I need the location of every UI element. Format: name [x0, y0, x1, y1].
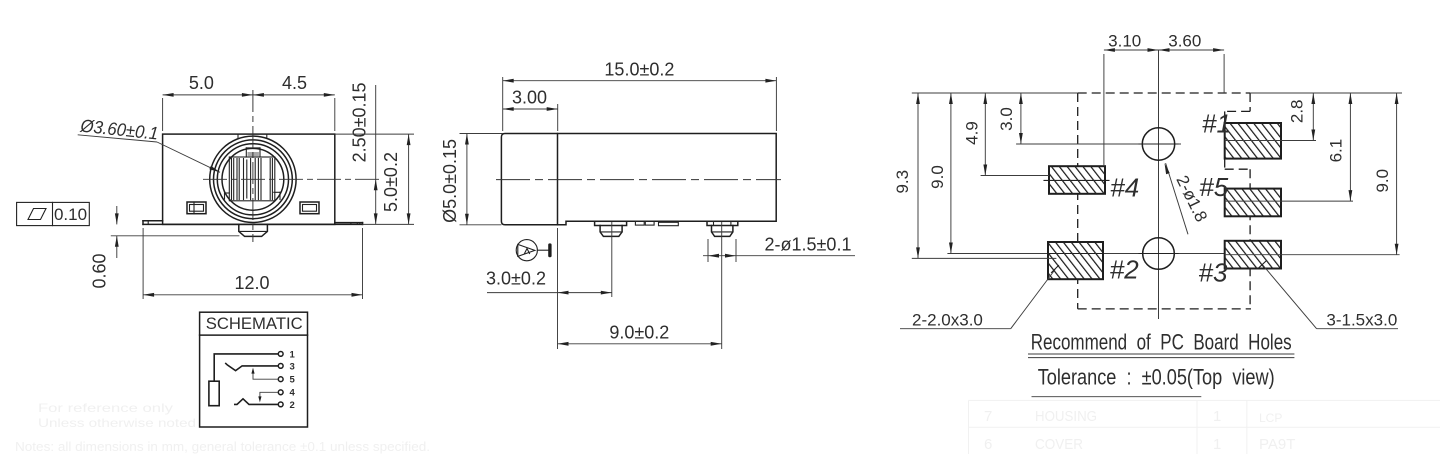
front view body [163, 134, 335, 224]
inner bottom-left step [225, 193, 230, 199]
svg-text:#3: #3 [1199, 258, 1228, 288]
pad #2 hole line [1048, 253, 1103, 255]
svg-text:0.10: 0.10 [54, 205, 87, 224]
svg-text:15.0±0.2: 15.0±0.2 [604, 60, 674, 80]
pad #5 [1225, 189, 1281, 217]
dim 2.8 [1288, 93, 1316, 141]
svg-text:1: 1 [1213, 436, 1221, 453]
dim 5.0+-0.2 [335, 134, 414, 224]
svg-text:COVER: COVER [1035, 436, 1083, 453]
pad #1 [1225, 123, 1281, 159]
hole cross lines [947, 144, 1225, 254]
svg-text:Tolerance : ±0.05(Top view): Tolerance : ±0.05(Top view) [1038, 365, 1275, 390]
title Recommend of PC Board Holes [1028, 330, 1294, 358]
svg-text:HOUSING: HOUSING [1035, 408, 1097, 425]
svg-text:3: 3 [290, 361, 295, 372]
svg-text:1: 1 [290, 349, 296, 360]
inner contact vertical lines [232, 159, 273, 200]
dim 0.60 [90, 206, 240, 289]
hole center ticks [1139, 144, 1178, 254]
svg-text:2-2.0x3.0: 2-2.0x3.0 [912, 311, 983, 330]
front view base line [143, 223, 363, 225]
svg-text:Recommend of PC Board Hole: Recommend of PC Board Holes [1031, 330, 1292, 355]
svg-text:SCHEMATIC: SCHEMATIC [206, 314, 303, 333]
dim diameter 5.0+-0.15 [440, 134, 503, 225]
pad #3 [1225, 241, 1281, 269]
svg-text:3.0: 3.0 [997, 107, 1016, 131]
svg-text:9.0: 9.0 [1373, 169, 1392, 193]
side view centerline [496, 179, 781, 181]
svg-text:Notes: all dimensions in mm, g: Notes: all dimensions in mm, general tol… [15, 439, 430, 454]
svg-text:4: 4 [290, 388, 296, 399]
faint parts table [969, 400, 1440, 454]
pcb dashed outline [1078, 93, 1251, 309]
dim 2.50+-0.15 [350, 82, 378, 224]
dim 15.0+-0.2 [503, 60, 777, 132]
hole upper 2-dia1.8 [1142, 128, 1174, 160]
side bottom small tabs [635, 221, 678, 225]
top reference extension lines [912, 92, 1402, 94]
leader 2-2.0x3.0 [900, 266, 1059, 330]
dim 3.10 / 3.60 [1104, 32, 1224, 167]
svg-text:2.50±0.15: 2.50±0.15 [350, 82, 370, 162]
svg-text:#1: #1 [1202, 109, 1231, 139]
wire pin1 to resistor [214, 354, 278, 381]
svg-text:5.0: 5.0 [189, 73, 214, 93]
pad labels [1110, 109, 1231, 288]
pad #2 [1048, 242, 1103, 279]
dim 12.0 [143, 228, 362, 299]
svg-text:LCP: LCP [1259, 411, 1282, 425]
front view left mounting tab [143, 221, 163, 225]
wire pin5 normally-closed contact [251, 368, 278, 380]
schematic pin numbers [290, 349, 296, 411]
pad #1 center line [1225, 140, 1316, 142]
front view right mounting tab [335, 223, 363, 225]
wire pin4 contact [258, 392, 278, 402]
dim 4.9 [963, 93, 1050, 176]
dim 3.0 [997, 93, 1023, 144]
dim 5.0 / 4.5 top [163, 73, 335, 131]
svg-text:#4: #4 [1110, 173, 1139, 203]
svg-text:12.0: 12.0 [234, 273, 269, 293]
svg-text:9.3: 9.3 [893, 170, 912, 194]
svg-text:2-ø1.5±0.1: 2-ø1.5±0.1 [765, 235, 852, 255]
schematic pin terminals [278, 352, 283, 407]
vertical centerline front [252, 90, 254, 242]
pad #5 center line [1225, 200, 1353, 202]
svg-text:0.60: 0.60 [90, 253, 110, 288]
pad #4 [1049, 166, 1105, 194]
side left pin [595, 221, 627, 236]
left side hole [187, 202, 206, 214]
svg-text:9.0: 9.0 [928, 165, 947, 189]
side right pin [707, 221, 738, 236]
svg-text:4.5: 4.5 [282, 73, 307, 93]
pcb vertical centerline [1158, 50, 1160, 319]
inner contact frame [229, 157, 274, 201]
svg-text:5.0±0.2: 5.0±0.2 [381, 152, 401, 212]
svg-text:#5: #5 [1199, 172, 1228, 202]
side view body [501, 134, 776, 225]
dim 9.0+-0.2 [558, 222, 722, 349]
svg-text:3.00: 3.00 [512, 88, 547, 108]
dim diameter 3.60 leader [78, 115, 220, 172]
leader 3-1.5x3.0 [1259, 261, 1398, 330]
wire pin3 switch arm [225, 363, 278, 371]
barrel rings (4 concentric circles) [210, 136, 296, 222]
svg-text:4.9: 4.9 [963, 121, 982, 145]
svg-text:PA9T: PA9T [1259, 436, 1295, 453]
hole lower 2-dia1.8 [1143, 238, 1175, 270]
svg-text:6.1: 6.1 [1327, 139, 1346, 163]
dim 2-dia1.5+-0.1 [703, 235, 855, 263]
flatness feature control frame [17, 202, 90, 225]
svg-text:7: 7 [984, 408, 992, 425]
svg-text:5: 5 [290, 375, 296, 386]
svg-text:6: 6 [984, 436, 992, 453]
schematic box [200, 312, 308, 427]
svg-text:Unless otherwise noted: Unless otherwise noted [38, 416, 196, 430]
svg-text:3.0±0.2: 3.0±0.2 [486, 269, 546, 289]
dim 9.0 right [1373, 93, 1399, 255]
pad #3 center line [1225, 254, 1400, 256]
svg-text:1: 1 [1213, 408, 1221, 425]
dim 9.3 [893, 93, 1056, 258]
dim 6.1 [1327, 93, 1353, 201]
svg-text:3.60: 3.60 [1168, 32, 1201, 51]
svg-text:3.10: 3.10 [1108, 32, 1141, 51]
wire pin2 switch arm [234, 399, 278, 405]
svg-text:3-1.5x3.0: 3-1.5x3.0 [1326, 311, 1397, 330]
faint footer notes [15, 401, 430, 454]
dim 9.0 left [928, 93, 953, 254]
svg-text:For reference only: For reference only [38, 401, 173, 415]
resistor (sleeve contact) [209, 381, 219, 406]
top key notch [246, 148, 260, 157]
svg-text:Ø5.0±0.15: Ø5.0±0.15 [440, 139, 460, 223]
svg-text:#2: #2 [1110, 255, 1139, 285]
datum target symbol A [516, 240, 551, 261]
front bushing below base [239, 224, 268, 236]
right side hole [300, 202, 319, 214]
inner bottom-right step [274, 192, 280, 199]
svg-text:9.0±0.2: 9.0±0.2 [609, 323, 669, 343]
leader 2-dia1.8 [1165, 163, 1212, 234]
dim 3.0+-0.2 [486, 222, 612, 349]
subtitle Tolerance [1032, 365, 1275, 397]
pad #4 center line [1044, 179, 1109, 181]
barrel top weld ticks [238, 134, 267, 138]
horizontal centerline front [203, 178, 381, 180]
dim 3.00 [503, 88, 558, 132]
svg-text:2.8: 2.8 [1288, 99, 1307, 123]
svg-text:2: 2 [290, 400, 295, 411]
